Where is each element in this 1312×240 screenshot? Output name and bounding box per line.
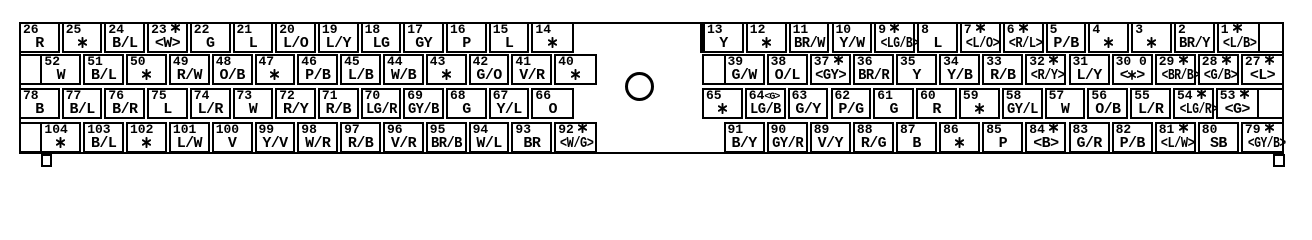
pin 95 (BR/B) <box>426 122 467 153</box>
pin 76 (B/R) <box>104 88 145 119</box>
pin 87 (B) <box>896 122 937 153</box>
pin 64<G> (LG/B) <box>745 88 786 119</box>
pin 10 (Y/W) <box>832 22 873 53</box>
pin 1 (<L/B>) <box>1217 22 1260 53</box>
pin 62 (P/G) <box>831 88 872 119</box>
pin 88 (R/G) <box>853 122 894 153</box>
pin 86 (asterisk) <box>939 122 980 153</box>
pin 33 (R/B) <box>982 54 1023 85</box>
pin 54 (<LG/R>) <box>1173 88 1214 119</box>
pin 8 (L) <box>917 22 958 53</box>
pin 72 (R/Y) <box>275 88 316 119</box>
pin 9 (<LG/B>) <box>874 22 915 53</box>
pin 4 (asterisk) <box>1088 22 1129 53</box>
pin 40 (asterisk) <box>554 54 597 85</box>
pin 26 (R) <box>19 22 60 53</box>
pin 89 (V/Y) <box>810 122 851 153</box>
pin 29 (<BR/B>) <box>1155 54 1196 85</box>
pin 15 (L) <box>489 22 530 53</box>
pin 11 (BR/W) <box>789 22 830 53</box>
pin 17 (GY) <box>403 22 444 53</box>
pin 65 (asterisk) <box>702 88 743 119</box>
pin 73 (W) <box>233 88 274 119</box>
pin 43 (asterisk) <box>426 54 467 85</box>
pin 27 (<L>) <box>1241 54 1284 85</box>
pin 58 (GY/L) <box>1002 88 1043 119</box>
pin 41 (V/R) <box>511 54 552 85</box>
pin 80 (SB) <box>1198 122 1239 153</box>
pin 75 (L) <box>147 88 188 119</box>
pin 52 (W) <box>40 54 81 85</box>
empty half-cell <box>702 54 726 85</box>
pin 60 (R) <box>916 88 957 119</box>
empty half-cell <box>1256 88 1284 119</box>
pin 25 (asterisk) <box>62 22 103 53</box>
pin 35 (Y) <box>896 54 937 85</box>
pin 83 (G/R) <box>1069 122 1110 153</box>
pin 24 (B/L) <box>104 22 145 53</box>
pin 2 (BR/Y) <box>1174 22 1215 53</box>
pin 101 (L/W) <box>169 122 210 153</box>
pin 36 (BR/R) <box>853 54 894 85</box>
pin 96 (V/R) <box>383 122 424 153</box>
pin 74 (L/R) <box>190 88 231 119</box>
pin 20 (L/O) <box>275 22 316 53</box>
pin 53 (<G>) <box>1216 88 1259 119</box>
pin 104 (asterisk) <box>40 122 81 153</box>
pin 12 (asterisk) <box>746 22 787 53</box>
pin 56 (O/B) <box>1087 88 1128 119</box>
pin 18 (LG) <box>361 22 402 53</box>
pin 3 (asterisk) <box>1131 22 1172 53</box>
pin 45 (L/B) <box>340 54 381 85</box>
bottom-right index tab <box>1273 154 1285 167</box>
pin 61 (G) <box>873 88 914 119</box>
pin 92 (<W/G>) <box>554 122 597 153</box>
pin 81 (<L/W>) <box>1155 122 1196 153</box>
pin 49 (R/W) <box>169 54 210 85</box>
pin 38 (O/L) <box>767 54 808 85</box>
pin 37 (<GY>) <box>810 54 851 85</box>
pin 78 (B) <box>19 88 60 119</box>
pin 79 (<GY/B>) <box>1241 122 1284 153</box>
pin 42 (G/O) <box>469 54 510 85</box>
pin 6 (<R/L>) <box>1003 22 1044 53</box>
pin 66 (O) <box>531 88 574 119</box>
pin 97 (R/B) <box>340 122 381 153</box>
pin 48 (O/B) <box>212 54 253 85</box>
pin 103 (B/L) <box>83 122 124 153</box>
pin 59 (asterisk) <box>959 88 1000 119</box>
pin 5 (P/B) <box>1046 22 1087 53</box>
pin 84 (<B>) <box>1025 122 1066 153</box>
pin 85 (P) <box>982 122 1023 153</box>
pin 69 (GY/B) <box>403 88 444 119</box>
pin 67 (Y/L) <box>489 88 530 119</box>
pin 19 (L/Y) <box>318 22 359 53</box>
pin 31 (L/Y) <box>1069 54 1110 85</box>
mounting bolt hole (circle) <box>625 72 654 101</box>
pin 94 (W/L) <box>469 122 510 153</box>
pin 47 (asterisk) <box>255 54 296 85</box>
pin 57 (W) <box>1045 88 1086 119</box>
pin 68 (G) <box>446 88 487 119</box>
pin 55 (L/R) <box>1130 88 1171 119</box>
pin 70 (LG/R) <box>361 88 402 119</box>
pin 14 (asterisk) <box>531 22 574 53</box>
pin 91 (B/Y) <box>724 122 765 153</box>
empty half-cell <box>19 122 43 153</box>
pin 44 (W/B) <box>383 54 424 85</box>
pin 90 (GY/R) <box>767 122 808 153</box>
pin 71 (R/B) <box>318 88 359 119</box>
empty half-cell <box>1257 22 1284 53</box>
pin 22 (G) <box>190 22 231 53</box>
pin 13 (Y) <box>703 22 744 53</box>
empty half-cell <box>19 54 43 85</box>
pin 63 (G/Y) <box>788 88 829 119</box>
pin 51 (B/L) <box>83 54 124 85</box>
pin 32 (<R/Y>) <box>1025 54 1066 85</box>
pin 21 (L) <box>233 22 274 53</box>
pin 23 (<W>) <box>147 22 188 53</box>
pin 100 (V) <box>212 122 253 153</box>
pin 102 (asterisk) <box>126 122 167 153</box>
pin 99 (Y/V) <box>255 122 296 153</box>
connector outer outline <box>19 22 1284 155</box>
pin 93 (BR) <box>511 122 552 153</box>
pin 16 (P) <box>446 22 487 53</box>
outline step at right block, row 1 <box>700 22 705 53</box>
pin 46 (P/B) <box>297 54 338 85</box>
pin 7 (<L/O>) <box>960 22 1001 53</box>
pin 77 (B/L) <box>62 88 103 119</box>
pin 34 (Y/B) <box>939 54 980 85</box>
pin 82 (P/B) <box>1112 122 1153 153</box>
pin 30 0 (asterisk) <box>1112 54 1153 85</box>
pin 39 (G/W) <box>724 54 765 85</box>
pin 98 (W/R) <box>297 122 338 153</box>
pin 50 (asterisk) <box>126 54 167 85</box>
bottom-left index tab <box>41 154 52 167</box>
pin 28 (<G/B>) <box>1198 54 1239 85</box>
